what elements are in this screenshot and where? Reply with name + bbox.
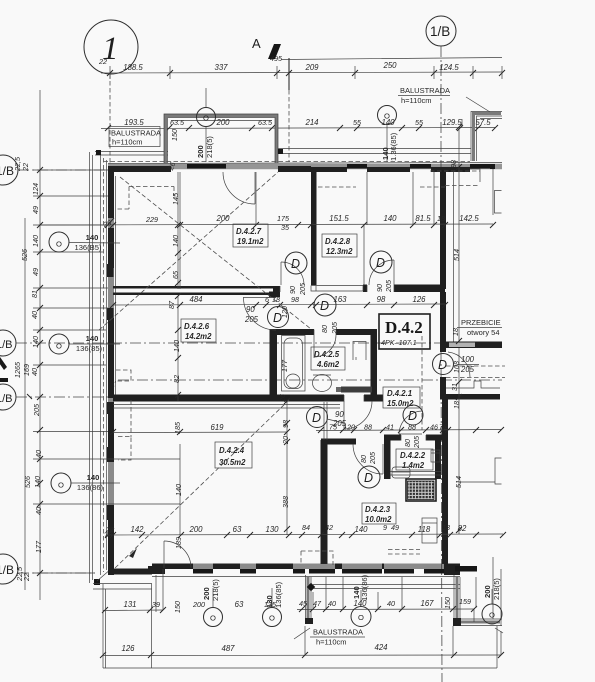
svg-text:1/B: 1/B: [0, 164, 14, 178]
svg-text:136(86): 136(86): [77, 483, 104, 492]
svg-text:159: 159: [459, 597, 471, 606]
svg-text:150: 150: [443, 597, 452, 609]
svg-text:145: 145: [171, 192, 180, 205]
svg-text:177: 177: [34, 540, 43, 553]
svg-text:188.5: 188.5: [123, 63, 143, 72]
window label O top-right: [378, 106, 399, 163]
bottom right balcony: [453, 557, 503, 633]
door D423 swing: [353, 444, 383, 474]
svg-text:A: A: [252, 36, 261, 51]
svg-text:D.4.2.1: D.4.2.1: [387, 389, 412, 398]
svg-text:40: 40: [34, 450, 43, 458]
svg-text:45: 45: [299, 599, 308, 608]
svg-text:81: 81: [30, 290, 39, 298]
svg-text:O: O: [56, 342, 62, 351]
svg-text:D.4.2.7: D.4.2.7: [236, 227, 262, 236]
section A sight line: [281, 58, 502, 60]
terrace roof edge lines centre: [278, 149, 471, 154]
mid dim column x180 lower: [174, 444, 183, 549]
svg-text:150: 150: [173, 601, 182, 613]
furniture dashed D424 bottom: [301, 551, 333, 565]
svg-text:151.5: 151.5: [329, 214, 349, 223]
svg-text:4.6m2: 4.6m2: [316, 360, 340, 369]
right facade niche bracket upper: [495, 191, 502, 214]
kitchen south wall y397 right: [446, 381, 500, 388]
svg-text:1265: 1265: [13, 361, 22, 378]
svg-text:205: 205: [298, 282, 307, 296]
svg-text:46: 46: [430, 423, 438, 432]
svg-text:D.4.2.8: D.4.2.8: [325, 237, 351, 246]
flat label D.4.2: [379, 314, 430, 349]
svg-text:47: 47: [313, 599, 322, 608]
svg-text:209: 209: [304, 63, 319, 72]
svg-text:526: 526: [20, 249, 29, 261]
svg-text:205: 205: [384, 279, 393, 293]
door D426 swing: [243, 298, 276, 331]
svg-text:140: 140: [86, 334, 99, 343]
right facade niche bracket lower: [495, 458, 502, 484]
svg-text:142.5: 142.5: [459, 214, 479, 223]
furniture dashed west wall: [116, 370, 131, 381]
svg-text:22: 22: [98, 57, 107, 66]
svg-text:140: 140: [174, 484, 183, 496]
svg-text:18: 18: [452, 401, 461, 409]
svg-text:D.4.2.5: D.4.2.5: [314, 350, 340, 359]
terrace corner dot bottom-left: [94, 579, 100, 585]
svg-text:200: 200: [202, 587, 211, 600]
kitchen tall unit: [422, 518, 437, 543]
svg-text:O: O: [203, 114, 209, 123]
svg-text:175: 175: [277, 214, 290, 223]
terrace corner miter bottom-left: [97, 569, 111, 581]
svg-text:82: 82: [458, 524, 467, 533]
shaft hatched: [406, 479, 436, 501]
dim row E y430: [316, 423, 504, 434]
wall D426/D424 and bathroom south y397: [113, 395, 383, 402]
axis circle 1/B top-right: [426, 16, 456, 46]
svg-text:57.5: 57.5: [475, 118, 491, 127]
svg-text:90: 90: [375, 284, 384, 292]
svg-text:O: O: [269, 614, 275, 623]
svg-text:140: 140: [354, 525, 368, 534]
svg-text:487: 487: [221, 644, 235, 653]
svg-text:1/B: 1/B: [0, 563, 14, 577]
bottom frame line y668: [103, 667, 497, 669]
washbasin bathroom: [313, 375, 332, 392]
svg-text:O: O: [384, 112, 390, 121]
axis circle /B left y170: [0, 155, 30, 185]
svg-text:26: 26: [278, 394, 287, 403]
door to east D421 przebicie: [446, 352, 505, 378]
svg-text:D: D: [312, 411, 321, 425]
axis circle 1 top-left: [84, 20, 138, 74]
svg-text:130: 130: [265, 595, 274, 608]
wall D424/D423 x324: [321, 440, 328, 564]
svg-text:200: 200: [188, 525, 203, 534]
door D428 swing: [369, 260, 394, 285]
svg-text:126: 126: [121, 644, 135, 653]
partition jamb above D423 wall: [324, 402, 327, 440]
svg-text:55: 55: [353, 118, 362, 127]
dim row C y225 interior: [40, 214, 496, 232]
svg-text:90: 90: [288, 286, 297, 294]
west wall insulation dashed: [103, 158, 105, 572]
right facade line upper: [454, 169, 494, 342]
svg-text:200: 200: [192, 600, 205, 609]
svg-text:18: 18: [451, 328, 460, 336]
terrace bottom edge lines: [93, 584, 152, 590]
svg-text:20: 20: [281, 436, 290, 445]
svg-text:100: 100: [461, 355, 475, 364]
west wall window labels O circles: [49, 232, 120, 493]
O circles bottom windows: [204, 588, 503, 627]
room label D.4.2.3: [362, 503, 396, 524]
svg-text:140: 140: [31, 336, 40, 348]
radiator band bathroom: [336, 387, 372, 393]
svg-text:BALUSTRADA: BALUSTRADA: [111, 129, 161, 138]
svg-text:otwory 54: otwory 54: [467, 328, 500, 337]
kitchen counter top: [431, 450, 440, 462]
svg-text:40: 40: [30, 368, 39, 376]
svg-text:1.36(85): 1.36(85): [389, 132, 398, 161]
svg-text:205: 205: [412, 435, 421, 449]
door circle east: [433, 354, 454, 375]
corridor north wall y288: [113, 285, 445, 298]
axis line /B y397 jog to y380: [16, 380, 502, 397]
svg-text:O: O: [489, 611, 495, 620]
svg-text:40: 40: [328, 599, 336, 608]
svg-text:124.5: 124.5: [439, 63, 459, 72]
przebicie wall y345: [446, 342, 502, 349]
svg-text:35: 35: [281, 223, 290, 232]
svg-text:108: 108: [452, 361, 461, 373]
svg-text:140: 140: [171, 235, 180, 247]
bottom exterior wall: [111, 564, 477, 577]
right wall x444 lower: [442, 399, 448, 564]
svg-text:205: 205: [244, 315, 259, 324]
svg-text:205: 205: [460, 365, 475, 374]
dashed wardrobe line D424: [130, 400, 132, 437]
svg-text:22: 22: [22, 573, 31, 582]
svg-text:40: 40: [34, 507, 43, 515]
diagonal cross room D427 up: [99, 172, 278, 330]
svg-text:229: 229: [145, 215, 158, 224]
svg-text:126: 126: [412, 295, 426, 304]
extension verticals bottom: [103, 569, 501, 668]
door D421 swing: [399, 411, 423, 434]
balustrada label top-left boxed: [109, 127, 161, 147]
svg-text:4PK–107.1: 4PK–107.1: [381, 338, 417, 347]
section marker A left thick stroke: [0, 357, 7, 370]
svg-text:193.5: 193.5: [124, 118, 144, 127]
beam dashed top rooms: [104, 161, 471, 163]
svg-text:514: 514: [452, 249, 461, 261]
svg-text:O: O: [56, 240, 62, 249]
terrace roof corner dot: [278, 149, 283, 154]
svg-text:84: 84: [302, 523, 310, 532]
svg-text:D: D: [320, 299, 329, 313]
svg-text:18: 18: [442, 523, 450, 532]
svg-text:218(5): 218(5): [211, 579, 220, 601]
door circle D428: [370, 251, 392, 273]
svg-text:D: D: [291, 257, 300, 271]
svg-text:98: 98: [377, 295, 386, 304]
kitchen divider dashed: [421, 336, 423, 430]
opening circle D corridor x325: [314, 294, 336, 316]
section line vertical at x289: [288, 58, 290, 90]
axis circle /B left y397: [0, 384, 16, 410]
svg-text:65: 65: [171, 270, 180, 279]
svg-text:D.4.2.3: D.4.2.3: [365, 505, 391, 514]
svg-text:18: 18: [272, 295, 280, 304]
top-right balcony walls: [471, 112, 502, 162]
right wall of flat x443 upper: [440, 172, 446, 289]
svg-text:177: 177: [280, 359, 289, 372]
axis dashed line of grid 1: [109, 74, 111, 163]
svg-text:136(85): 136(85): [76, 344, 103, 353]
svg-text:63: 63: [233, 525, 242, 534]
balustrada label bottom: [294, 628, 365, 647]
svg-text:12.3m2: 12.3m2: [326, 247, 353, 256]
svg-text:31: 31: [450, 383, 459, 391]
room label D.4.2.6: [181, 319, 216, 342]
top wall window frame blocks: [187, 164, 226, 169]
svg-text:484: 484: [189, 295, 203, 304]
svg-text:205: 205: [368, 451, 377, 465]
diagonal arrow D424: [129, 548, 137, 558]
svg-text:142: 142: [130, 525, 144, 534]
svg-text:218(5): 218(5): [492, 578, 501, 600]
svg-text:49: 49: [31, 206, 40, 214]
room label D.4.2.7: [233, 224, 268, 247]
wall D423 north y441: [321, 439, 356, 445]
svg-text:82: 82: [172, 375, 181, 383]
svg-text:D.4.2.6: D.4.2.6: [184, 322, 210, 331]
svg-text:200: 200: [215, 118, 230, 127]
dim row G y610 balcony: [102, 597, 477, 613]
svg-text:BALUSTRADA: BALUSTRADA: [313, 628, 363, 637]
svg-text:1/B: 1/B: [0, 393, 13, 405]
svg-text:42: 42: [325, 523, 333, 532]
svg-text:131: 131: [123, 600, 136, 609]
svg-text:19.1m2: 19.1m2: [237, 237, 264, 246]
svg-text:D: D: [376, 256, 385, 270]
svg-text:1/B: 1/B: [0, 339, 13, 351]
svg-text:140: 140: [87, 473, 100, 482]
svg-text:O: O: [358, 613, 364, 622]
terrace corner dot top-left: [96, 150, 101, 155]
kink axis mark: [27, 394, 32, 399]
svg-text:O: O: [210, 614, 216, 623]
svg-text:88: 88: [364, 423, 372, 432]
mid dim column x178 upper: [171, 172, 181, 289]
svg-text:90: 90: [246, 305, 255, 314]
west wall main band: [108, 167, 114, 574]
room label D.4.2.2: [396, 449, 433, 470]
svg-text:PRZEBICIE: PRZEBICIE: [461, 318, 501, 327]
wide opening bar 163: [311, 286, 363, 292]
west wall outer face lines: [101, 155, 107, 575]
right column dims: [449, 124, 463, 533]
svg-text:205: 205: [330, 321, 339, 335]
svg-text:424: 424: [374, 643, 388, 652]
svg-text:63.5: 63.5: [258, 118, 273, 127]
svg-text:D.4.2: D.4.2: [385, 318, 423, 337]
svg-text:D: D: [273, 311, 282, 325]
door circle D421: [403, 405, 423, 425]
room label D.4.2.1: [383, 387, 420, 408]
svg-text:63: 63: [235, 600, 244, 609]
svg-text:124: 124: [31, 183, 40, 195]
axis line /B y170: [18, 169, 108, 171]
svg-text:55: 55: [415, 118, 424, 127]
washer square bathroom: [353, 342, 366, 361]
section marker A thick stroke: [268, 44, 281, 59]
svg-text:h=110cm: h=110cm: [316, 638, 347, 647]
rotated window labels row G: [202, 574, 501, 608]
balcony rotated labels top-left: [170, 88, 216, 162]
axis line /B y574: [18, 572, 95, 574]
dim extension verticals from top windows: [180, 119, 462, 534]
svg-text:205: 205: [32, 403, 41, 417]
svg-text:118: 118: [418, 525, 431, 534]
beam dashed top-left room: [115, 187, 174, 210]
svg-text:200: 200: [215, 214, 230, 223]
svg-text:136(B5): 136(B5): [74, 243, 101, 252]
interior wall D427/D428 x313: [311, 172, 317, 285]
dim row A y73: [101, 61, 505, 79]
svg-text:41: 41: [386, 423, 394, 432]
svg-text:526: 526: [23, 476, 32, 488]
door circle D423: [358, 466, 380, 488]
svg-text:205: 205: [332, 419, 347, 428]
svg-text:167: 167: [420, 599, 434, 608]
bathtub: [280, 336, 305, 392]
svg-text:185: 185: [173, 421, 182, 434]
svg-text:214: 214: [304, 118, 319, 127]
svg-text:98: 98: [281, 420, 290, 428]
balcony door D424 swing: [164, 541, 191, 568]
door D427 to corridor swing: [281, 262, 304, 285]
door circle D427: [285, 252, 307, 274]
terrace top edge double line: [95, 152, 168, 156]
svg-text:40: 40: [387, 599, 395, 608]
svg-text:D.4.2.2: D.4.2.2: [400, 451, 426, 460]
svg-text:h=110cm: h=110cm: [401, 96, 432, 105]
dim row H y655: [100, 643, 504, 658]
svg-text:h=110cm: h=110cm: [112, 138, 143, 147]
svg-text:495: 495: [270, 54, 283, 63]
svg-text:140: 140: [86, 233, 99, 242]
svg-text:6: 6: [265, 295, 269, 304]
dim row B y128: [101, 118, 498, 131]
svg-text:140: 140: [383, 214, 397, 223]
axis line /B y343: [16, 342, 502, 344]
svg-text:D: D: [364, 471, 373, 485]
axis line 1/B vertical dash-dot: [441, 46, 442, 682]
svg-text:15.0m2: 15.0m2: [387, 399, 414, 408]
svg-text:81.5: 81.5: [415, 214, 431, 223]
svg-text:90: 90: [335, 410, 344, 419]
right side step below top wall: [470, 169, 480, 182]
svg-text:98: 98: [291, 295, 299, 304]
svg-text:40: 40: [30, 311, 39, 319]
svg-text:30.5m2: 30.5m2: [219, 458, 246, 467]
bathroom door swing D425: [314, 335, 336, 358]
svg-text:140: 140: [31, 235, 40, 247]
axis circle /B left y569: [0, 554, 31, 584]
svg-text:D: D: [438, 358, 447, 372]
door circle D426: [268, 307, 289, 328]
opening jambs corridor: [280, 285, 394, 292]
axis circle /B left y343: [0, 330, 16, 356]
svg-text:10.0m2: 10.0m2: [365, 515, 392, 524]
svg-text:76: 76: [439, 423, 447, 432]
svg-text:18: 18: [437, 214, 445, 223]
svg-text:388: 388: [281, 496, 290, 508]
terrace west edge double line: [90, 152, 93, 583]
room label D.4.2.8: [322, 234, 357, 257]
balustrada label top-right: [398, 86, 490, 112]
balcony door D427 leaf and swing: [223, 172, 255, 204]
svg-text:150: 150: [170, 129, 179, 141]
bottom centre balcony wall: [305, 575, 460, 624]
svg-text:1.4m2: 1.4m2: [402, 461, 425, 470]
svg-text:87: 87: [167, 300, 176, 309]
top wall sill line: [108, 163, 502, 164]
svg-text:80: 80: [320, 325, 329, 333]
svg-text:22: 22: [21, 163, 30, 172]
bathroom walls D425: [270, 329, 377, 401]
top exterior wall band: [108, 164, 502, 170]
D426 east wall x272: [269, 292, 277, 402]
svg-text:D: D: [408, 409, 417, 423]
svg-text:O: O: [58, 481, 64, 490]
door circle kitchen: [307, 407, 328, 428]
svg-text:619: 619: [210, 423, 224, 432]
dim row F y534: [105, 523, 506, 538]
west wall inner face line: [115, 176, 117, 396]
top wall solid segments: [108, 166, 470, 172]
dim row 619 inside D424: [110, 421, 290, 435]
left dim column x40: [13, 90, 180, 600]
diagonal room D424: [115, 400, 289, 568]
svg-text:D.4.2.4: D.4.2.4: [219, 446, 245, 455]
svg-text:250: 250: [382, 61, 397, 70]
svg-text:140: 140: [172, 340, 181, 352]
room label D.4.2.4: [215, 442, 252, 468]
svg-text:514: 514: [454, 476, 463, 488]
svg-text:1/B: 1/B: [430, 24, 450, 39]
svg-text:63.5: 63.5: [170, 118, 185, 127]
svg-text:136(85): 136(85): [274, 581, 283, 608]
svg-text:130: 130: [265, 525, 279, 534]
svg-text:14.2m2: 14.2m2: [185, 332, 212, 341]
room label D.4.2.5: [311, 347, 345, 370]
przebicie note: [457, 318, 502, 337]
kitchen door swing: [344, 401, 372, 429]
svg-text:200: 200: [196, 145, 205, 158]
right wall x443 mid: [440, 292, 446, 394]
top-centre balcony walls: [164, 114, 278, 163]
mid dim column x178 D426: [172, 293, 181, 401]
svg-text:49: 49: [31, 268, 40, 276]
west wall solid piers: [107, 167, 114, 575]
svg-text:BALUSTRADA: BALUSTRADA: [400, 86, 450, 95]
svg-text:80: 80: [403, 439, 412, 447]
svg-text:337: 337: [214, 63, 228, 72]
svg-text:129.5: 129.5: [442, 118, 462, 127]
